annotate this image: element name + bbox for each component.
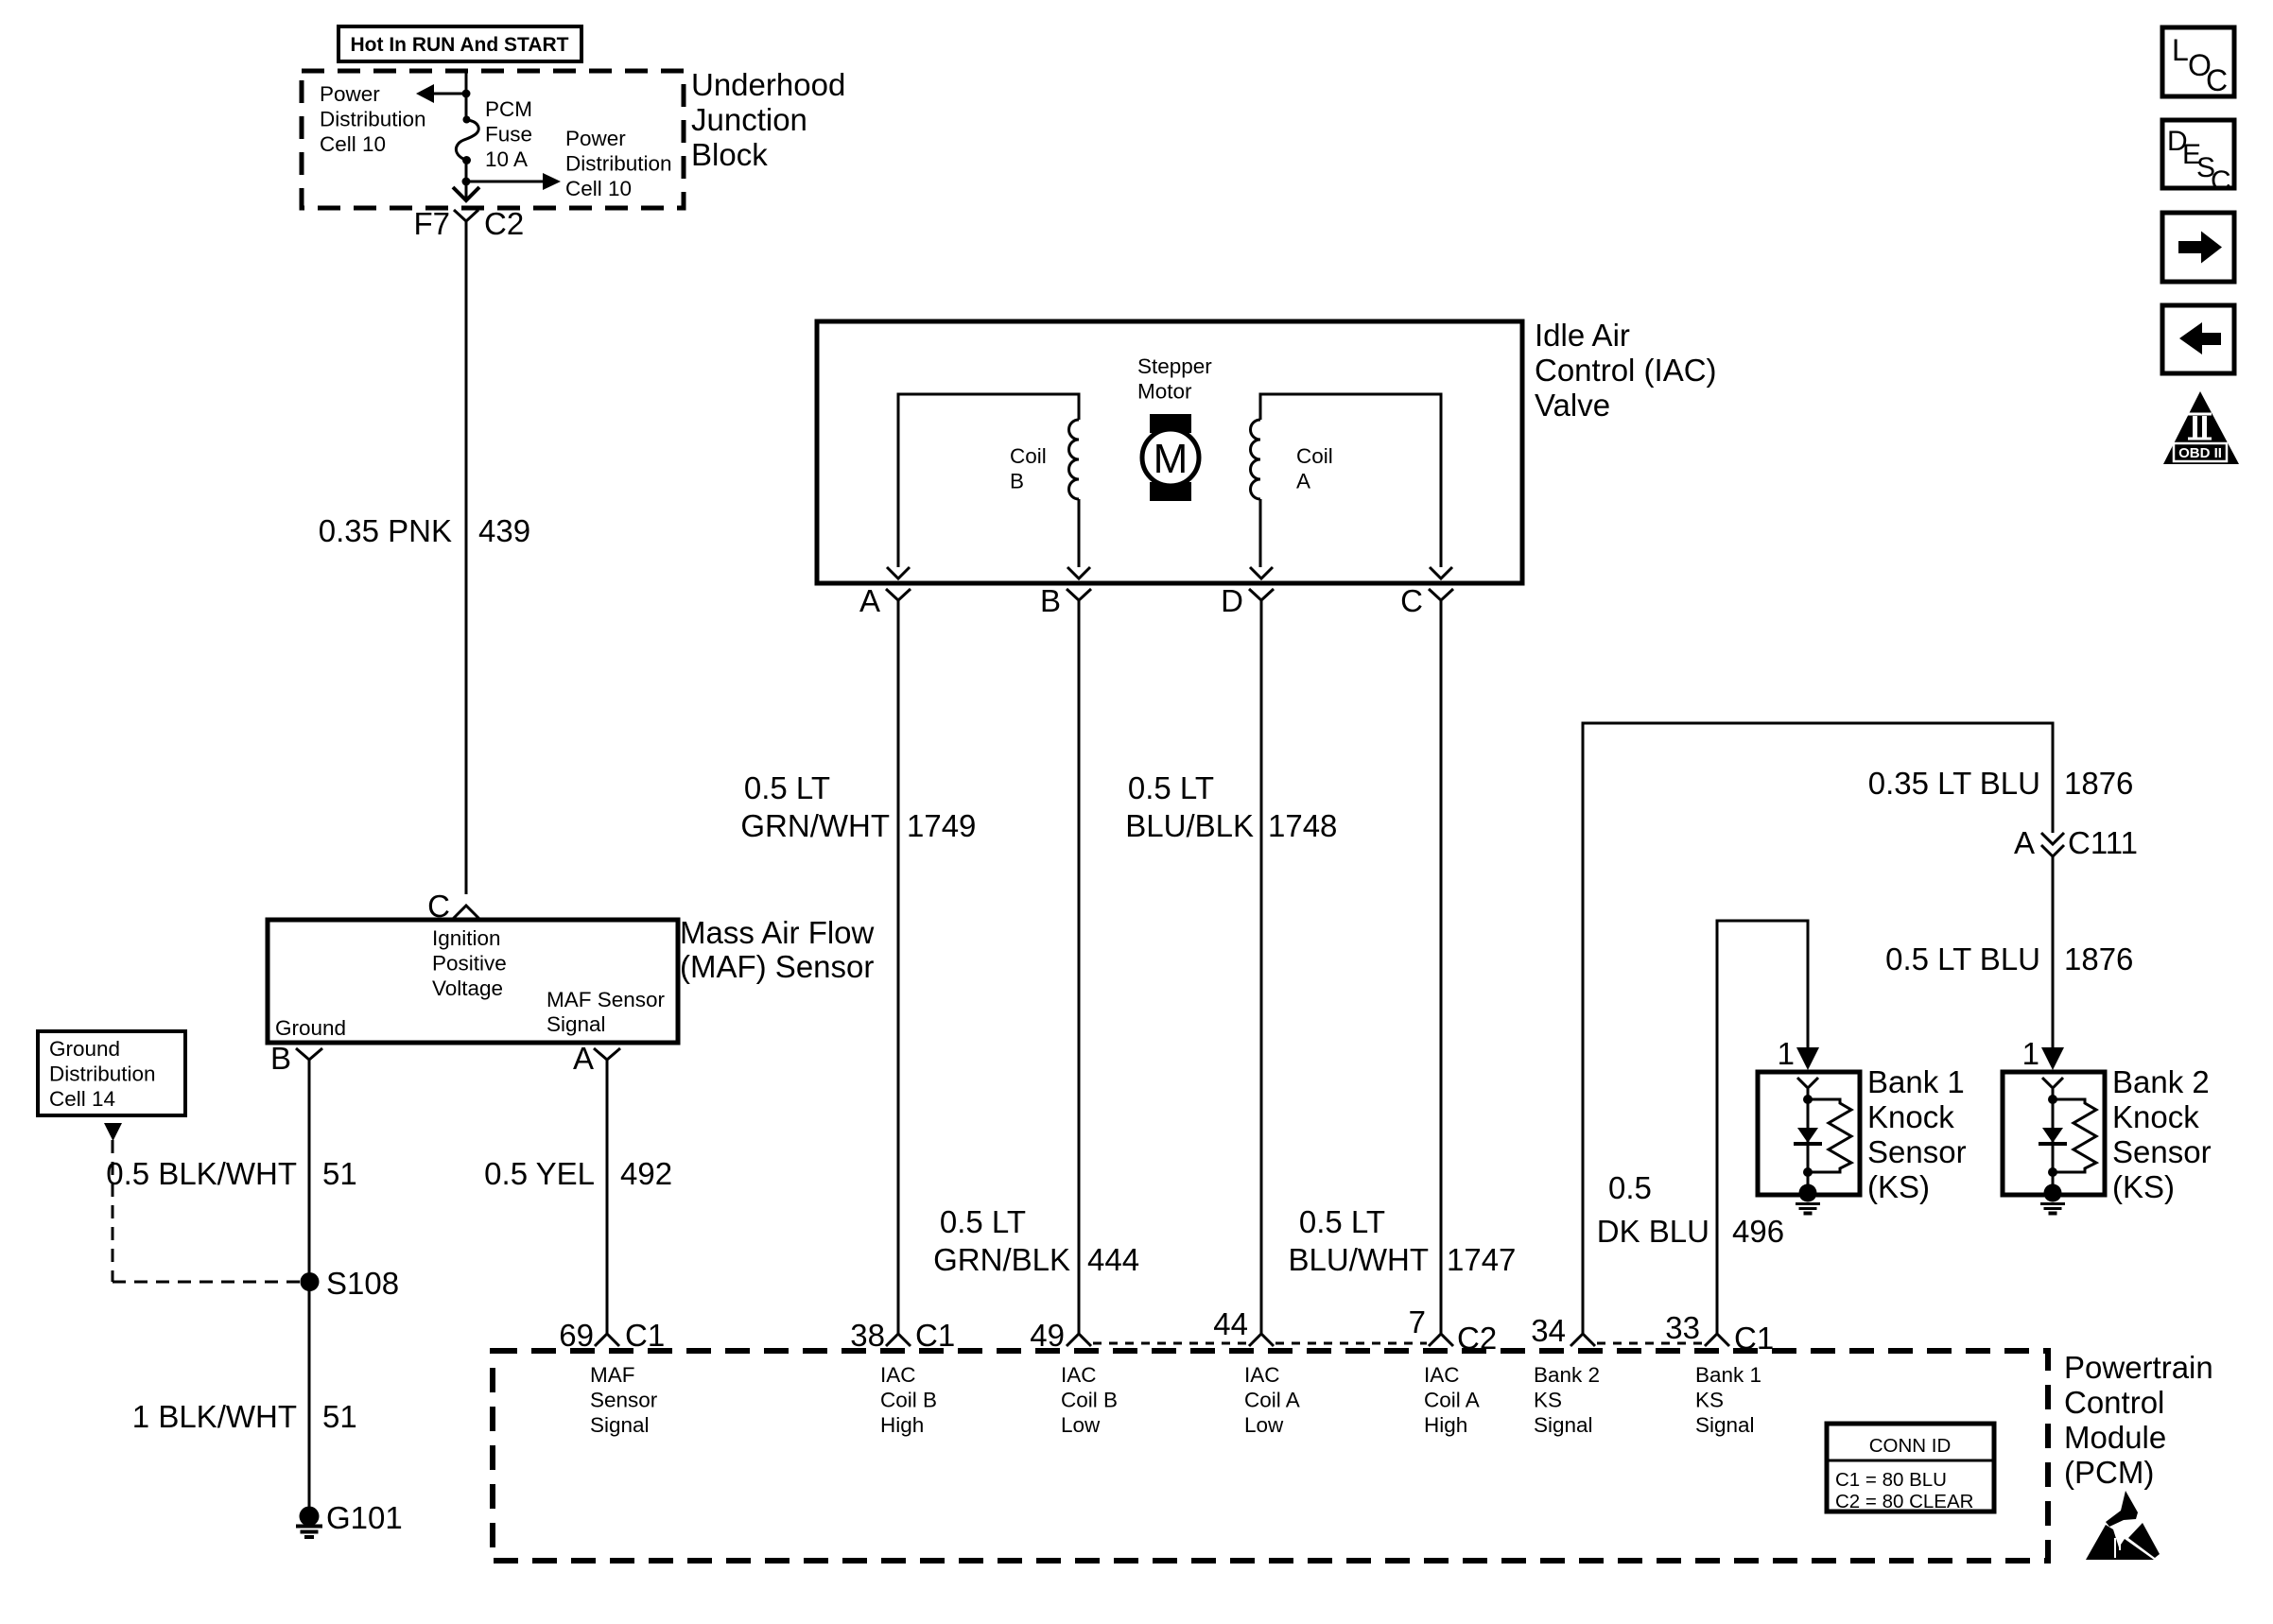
svg-text:C1: C1 <box>1734 1321 1774 1356</box>
svg-text:Positive: Positive <box>432 952 507 976</box>
svg-text:44: 44 <box>1213 1306 1248 1341</box>
svg-text:Idle Air: Idle Air <box>1535 318 1630 353</box>
svg-text:1 BLK/WHT: 1 BLK/WHT <box>132 1399 297 1434</box>
svg-text:(KS): (KS) <box>1867 1169 1930 1204</box>
svg-text:0.5 LT: 0.5 LT <box>940 1204 1026 1239</box>
svg-text:B: B <box>1010 470 1024 493</box>
svg-text:0.5 LT: 0.5 LT <box>744 770 830 805</box>
wire from hot feed into fuse <box>465 71 468 121</box>
arrow into Bank 2 KS pin 1 <box>2022 1036 2064 1071</box>
Bank 1 KS resistor <box>1808 1099 1851 1172</box>
node S108 <box>301 1266 400 1301</box>
arrow at IAC pin C <box>1430 567 1452 579</box>
svg-text:Mass Air Flow: Mass Air Flow <box>680 915 875 950</box>
label 0.35 LT BLU 1876 <box>1868 766 2134 801</box>
label 0.5 LT GRN/BLK 444 <box>933 1204 1139 1277</box>
arrow into Bank 1 KS pin 1 <box>1778 1036 1819 1071</box>
svg-text:Ground: Ground <box>49 1037 120 1061</box>
wire IAC B to PCM 49 <box>1078 600 1081 1334</box>
Bank 2 KS resistor <box>2053 1099 2096 1172</box>
connector F7 / C2 <box>413 206 524 241</box>
connector pin 7 C2 <box>1409 1304 1498 1356</box>
svg-text:C2 = 80 CLEAR: C2 = 80 CLEAR <box>1835 1491 1973 1512</box>
svg-text:Power: Power <box>565 127 626 150</box>
Bank 2 KS pin 1 connector <box>2042 1078 2063 1088</box>
svg-text:(KS): (KS) <box>2112 1169 2175 1204</box>
label Coil B <box>1010 444 1047 493</box>
connector pin 49 <box>1030 1318 1091 1353</box>
svg-text:1: 1 <box>2022 1036 2039 1071</box>
svg-text:C: C <box>1400 583 1423 618</box>
svg-text:OBD II: OBD II <box>2178 445 2222 461</box>
svg-text:496: 496 <box>1732 1214 1784 1249</box>
coil A winding circuit <box>1251 394 1442 567</box>
connector pin A below IAC <box>859 583 911 618</box>
label MAF Sensor Signal pin <box>590 1363 658 1437</box>
node junction above fuse <box>462 90 471 98</box>
svg-text:DK BLU: DK BLU <box>1597 1214 1709 1249</box>
arrow at IAC pin B <box>1067 567 1090 579</box>
svg-text:Signal: Signal <box>590 1413 650 1437</box>
label 0.35 PNK 439 <box>319 513 530 548</box>
svg-text:Knock: Knock <box>2112 1099 2199 1134</box>
svg-text:Voltage: Voltage <box>432 976 503 1000</box>
DESC icon box <box>2162 120 2234 197</box>
wire IAC A to PCM 38 <box>897 600 900 1334</box>
left arrow icon box <box>2162 305 2234 373</box>
label 0.5 BLK/WHT 51 <box>106 1156 356 1191</box>
svg-text:B: B <box>270 1041 291 1076</box>
svg-text:Power: Power <box>320 82 380 106</box>
svg-text:C1: C1 <box>915 1318 955 1353</box>
svg-text:IAC: IAC <box>1244 1363 1280 1387</box>
arrow at IAC pin A <box>887 567 910 579</box>
svg-text:C111: C111 <box>2068 825 2138 860</box>
connector pin 44 <box>1213 1306 1274 1346</box>
svg-text:A: A <box>573 1041 594 1076</box>
Bank 2 Knock Sensor box <box>2003 1072 2105 1195</box>
svg-text:Low: Low <box>1244 1413 1284 1437</box>
dashed link pins 34 to 33 <box>1597 1342 1703 1345</box>
svg-text:IAC: IAC <box>1061 1363 1097 1387</box>
svg-text:C2: C2 <box>484 206 524 241</box>
svg-text:1748: 1748 <box>1268 808 1337 843</box>
Bank 1 KS diode <box>1794 1128 1822 1144</box>
Underhood Junction Block dashed box <box>302 71 684 208</box>
svg-text:Control: Control <box>2064 1385 2164 1420</box>
svg-text:CONN ID: CONN ID <box>1869 1435 1952 1457</box>
svg-text:KS: KS <box>1695 1389 1724 1412</box>
svg-text:1: 1 <box>1778 1036 1795 1071</box>
svg-text:Junction: Junction <box>691 102 807 137</box>
svg-text:S108: S108 <box>326 1266 399 1301</box>
svg-text:D: D <box>1221 583 1243 618</box>
CONN ID table <box>1827 1424 1994 1512</box>
svg-text:Sensor: Sensor <box>1867 1134 1967 1169</box>
svg-text:KS: KS <box>1534 1389 1562 1412</box>
label 0.5 LT BLU/BLK 1748 <box>1125 770 1337 843</box>
svg-text:C1 = 80 BLU: C1 = 80 BLU <box>1835 1469 1947 1491</box>
svg-text:A: A <box>859 583 880 618</box>
svg-text:Cell 14: Cell 14 <box>49 1087 115 1111</box>
svg-text:0.35 LT BLU: 0.35 LT BLU <box>1868 766 2040 801</box>
connector A C111 <box>2014 825 2138 860</box>
svg-text:Hot In RUN And START: Hot In RUN And START <box>351 34 569 56</box>
connector pin C below IAC <box>1400 583 1453 618</box>
svg-text:Bank 1: Bank 1 <box>1695 1363 1761 1387</box>
Bank 1 KS bottom junction <box>1803 1167 1813 1177</box>
svg-text:444: 444 <box>1087 1242 1139 1277</box>
svg-text:Bank 2: Bank 2 <box>1534 1363 1600 1387</box>
svg-text:Control (IAC): Control (IAC) <box>1535 353 1717 388</box>
Idle Air Control valve box <box>817 321 1522 583</box>
svg-text:0.5: 0.5 <box>1608 1170 1652 1205</box>
svg-text:A: A <box>2014 825 2035 860</box>
ground G101 <box>296 1500 403 1537</box>
label Power Distribution Cell 10 (left) <box>320 82 426 156</box>
svg-text:C: C <box>2211 165 2231 197</box>
svg-text:PCM: PCM <box>485 97 532 121</box>
MAF Sensor Signal label <box>547 988 666 1036</box>
svg-text:10 A: 10 A <box>485 147 528 171</box>
svg-text:38: 38 <box>850 1318 885 1353</box>
svg-text:Distribution: Distribution <box>565 152 672 176</box>
dashed wire to S108 <box>113 1140 302 1282</box>
svg-text:33: 33 <box>1665 1310 1700 1345</box>
label Powertrain Control Module (PCM) <box>2064 1350 2213 1490</box>
svg-text:0.5 YEL: 0.5 YEL <box>484 1156 595 1191</box>
label Idle Air Control (IAC) Valve <box>1535 318 1717 423</box>
svg-text:Ignition: Ignition <box>432 926 501 950</box>
connector C at MAF sensor <box>427 889 479 924</box>
label Stepper Motor <box>1137 354 1212 404</box>
svg-text:439: 439 <box>478 513 530 548</box>
label 0.5 LT BLU 1876 <box>1885 942 2133 976</box>
wire 0.5 YEL 492 from MAF pin A <box>606 1060 609 1334</box>
svg-text:C: C <box>2206 63 2228 97</box>
Ground Distribution Cell 14 box <box>38 1031 185 1115</box>
svg-text:BLU/WHT: BLU/WHT <box>1289 1242 1430 1277</box>
label Coil A <box>1296 444 1333 493</box>
svg-text:Block: Block <box>691 137 768 172</box>
right arrow icon box <box>2162 213 2234 282</box>
svg-text:Sensor: Sensor <box>590 1389 658 1412</box>
svg-text:BLU/BLK: BLU/BLK <box>1125 808 1254 843</box>
svg-text:B: B <box>1040 583 1061 618</box>
svg-text:Coil A: Coil A <box>1244 1389 1300 1412</box>
label Bank 2 KS Signal pin <box>1534 1363 1600 1437</box>
wire 0.5 LT BLU 1876 to Bank 2 KS <box>2052 856 2055 1049</box>
connector pin A of MAF <box>573 1041 620 1076</box>
svg-text:0.5 LT: 0.5 LT <box>1299 1204 1385 1239</box>
svg-text:1747: 1747 <box>1447 1242 1516 1277</box>
svg-text:F7: F7 <box>413 206 450 241</box>
svg-text:1749: 1749 <box>907 808 976 843</box>
svg-text:34: 34 <box>1531 1313 1566 1348</box>
Bank 1 Knock Sensor box <box>1758 1072 1860 1195</box>
svg-text:GRN/WHT: GRN/WHT <box>740 808 890 843</box>
svg-text:Coil B: Coil B <box>1061 1389 1118 1412</box>
svg-text:C2: C2 <box>1457 1321 1497 1356</box>
svg-text:Bank 1: Bank 1 <box>1867 1064 1965 1099</box>
svg-text:Powertrain: Powertrain <box>2064 1350 2213 1385</box>
svg-text:1876: 1876 <box>2064 766 2133 801</box>
svg-text:Low: Low <box>1061 1413 1101 1437</box>
svg-text:Knock: Knock <box>1867 1099 1954 1134</box>
Bank 1 KS case ground <box>1796 1184 1820 1214</box>
svg-text:492: 492 <box>620 1156 672 1191</box>
svg-text:Signal: Signal <box>1695 1413 1755 1437</box>
connector pin 38 C1 <box>850 1318 955 1353</box>
Bank 2 KS case ground <box>2040 1184 2065 1214</box>
svg-text:0.35 PNK: 0.35 PNK <box>319 513 452 548</box>
svg-text:G101: G101 <box>326 1500 403 1535</box>
dashed link pins 49 to 44 <box>1093 1342 1247 1345</box>
svg-text:High: High <box>1424 1413 1467 1437</box>
wire 0.35 PNK 439 <box>465 234 468 894</box>
connector pin 33 C1 <box>1665 1310 1774 1356</box>
svg-text:Distribution: Distribution <box>320 108 426 131</box>
dashed link pins 44 to 7 <box>1275 1342 1427 1345</box>
label Mass Air Flow (MAF) Sensor <box>680 915 875 984</box>
svg-text:(PCM): (PCM) <box>2064 1455 2154 1490</box>
Powertrain Control Module dashed box <box>493 1351 2048 1561</box>
connector pin B below IAC <box>1040 583 1091 618</box>
coil B winding circuit <box>898 394 1079 567</box>
label 0.5 LT GRN/WHT 1749 <box>740 770 976 843</box>
label IAC Coil B High pin <box>880 1363 937 1437</box>
svg-text:51: 51 <box>322 1399 357 1434</box>
Bank 2 KS internal wire <box>2052 1089 2055 1184</box>
Bank 2 KS diode <box>2039 1128 2067 1144</box>
svg-text:Bank 2: Bank 2 <box>2112 1064 2210 1099</box>
svg-text:Ground: Ground <box>275 1016 346 1040</box>
svg-text:IAC: IAC <box>880 1363 916 1387</box>
svg-text:Stepper: Stepper <box>1137 354 1212 378</box>
svg-text:A: A <box>1296 470 1310 493</box>
ESD sensitive symbol <box>2086 1491 2160 1560</box>
label Bank 1 KS Signal pin <box>1695 1363 1761 1437</box>
arrow into connector F7 <box>453 187 479 200</box>
Bank 2 KS top junction <box>2048 1095 2057 1104</box>
svg-text:Coil B: Coil B <box>880 1389 937 1412</box>
connector pin B of MAF <box>270 1041 322 1076</box>
Mass Air Flow sensor box <box>268 920 678 1043</box>
wire IAC C to PCM 7 <box>1440 600 1443 1334</box>
OBD II symbol <box>2163 391 2239 464</box>
label Underhood Junction Block <box>691 67 845 172</box>
label Bank 1 Knock Sensor (KS) <box>1867 1064 1967 1204</box>
label IAC Coil A High pin <box>1424 1363 1480 1437</box>
arrow at IAC pin D <box>1250 567 1273 579</box>
motor M <box>1142 414 1199 501</box>
Bank 1 KS pin 1 connector <box>1797 1078 1818 1088</box>
wire below fuse <box>465 160 468 199</box>
Bank 2 KS bottom junction <box>2048 1167 2057 1177</box>
svg-text:69: 69 <box>559 1318 594 1353</box>
connector pin D below IAC <box>1221 583 1274 618</box>
svg-text:IAC: IAC <box>1424 1363 1460 1387</box>
wire arrow to Power Distribution Cell 10 (left) <box>416 84 466 103</box>
wire ground BLK/WHT from MAF pin B <box>308 1060 311 1509</box>
wire Bank2 KS signal from PCM 34 up and across <box>1583 723 2053 1334</box>
svg-text:Cell 10: Cell 10 <box>565 177 632 200</box>
MAF internal pin labels <box>432 926 507 1000</box>
svg-text:High: High <box>880 1413 924 1437</box>
svg-text:7: 7 <box>1409 1304 1426 1339</box>
arrow from ground distribution <box>104 1123 122 1141</box>
Bank 1 KS top junction <box>1803 1095 1813 1104</box>
svg-text:1876: 1876 <box>2064 942 2133 976</box>
svg-text:MAF: MAF <box>590 1363 635 1387</box>
svg-text:0.5 BLK/WHT: 0.5 BLK/WHT <box>106 1156 297 1191</box>
svg-text:0.5 LT: 0.5 LT <box>1128 770 1214 805</box>
label 0.5 LT BLU/WHT 1747 <box>1289 1204 1517 1277</box>
svg-text:GRN/BLK: GRN/BLK <box>933 1242 1070 1277</box>
svg-text:51: 51 <box>322 1156 357 1191</box>
fuse PCM Fuse 10 A <box>456 116 478 165</box>
svg-text:(MAF) Sensor: (MAF) Sensor <box>680 949 874 984</box>
wire Bank1 KS signal from PCM 33 up and across <box>1717 921 1808 1334</box>
wire IAC D to PCM 44 <box>1260 600 1263 1334</box>
label IAC Coil A Low pin <box>1244 1363 1300 1437</box>
svg-text:Signal: Signal <box>1534 1413 1593 1437</box>
svg-text:L: L <box>2172 33 2189 67</box>
Bank 1 KS internal wire <box>1807 1089 1810 1184</box>
svg-text:Coil: Coil <box>1296 444 1333 468</box>
label 0.5 DK BLU 496 <box>1597 1170 1784 1249</box>
svg-text:Fuse: Fuse <box>485 123 532 147</box>
label PCM Fuse 10 A <box>485 97 532 171</box>
connector pin 34 <box>1531 1313 1595 1348</box>
svg-text:Module: Module <box>2064 1420 2166 1455</box>
svg-text:MAF Sensor: MAF Sensor <box>547 988 666 1011</box>
node junction below fuse <box>462 178 471 186</box>
svg-text:M: M <box>1154 436 1189 482</box>
svg-text:Coil: Coil <box>1010 444 1047 468</box>
svg-text:Motor: Motor <box>1137 380 1192 404</box>
LOC icon box <box>2162 27 2234 97</box>
svg-text:Underhood: Underhood <box>691 67 845 102</box>
label Power Distribution Cell 10 (right) <box>565 127 672 200</box>
svg-text:Cell 10: Cell 10 <box>320 132 386 156</box>
svg-text:C1: C1 <box>625 1318 665 1353</box>
label Bank 2 Knock Sensor (KS) <box>2112 1064 2212 1204</box>
svg-text:Coil A: Coil A <box>1424 1389 1480 1412</box>
svg-text:Signal: Signal <box>547 1012 606 1036</box>
label 0.5 YEL 492 <box>484 1156 672 1191</box>
label IAC Coil B Low pin <box>1061 1363 1118 1437</box>
svg-text:49: 49 <box>1030 1318 1065 1353</box>
svg-text:Sensor: Sensor <box>2112 1134 2212 1169</box>
svg-text:Distribution: Distribution <box>49 1063 156 1086</box>
connector pin 69 C1 <box>559 1318 665 1353</box>
wire arrow to Power Distribution Cell 10 (right) <box>466 173 561 190</box>
header box Hot In RUN And START <box>338 26 581 61</box>
svg-text:0.5 LT BLU: 0.5 LT BLU <box>1885 942 2040 976</box>
label 1 BLK/WHT 51 <box>132 1399 357 1434</box>
svg-text:Valve: Valve <box>1535 388 1610 423</box>
